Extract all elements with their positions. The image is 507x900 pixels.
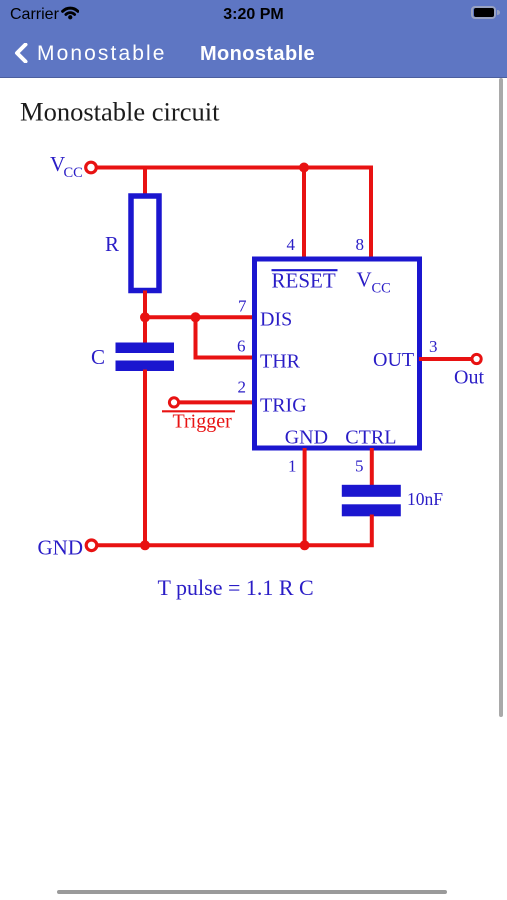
svg-text:Out: Out: [454, 367, 484, 389]
capacitor C2 10nF: [342, 485, 401, 517]
svg-text:GND: GND: [285, 427, 328, 449]
pin label THR: [260, 351, 301, 373]
svg-text:R: R: [105, 232, 119, 256]
wire rail to pin 8: [369, 166, 373, 259]
junction dot pin1 on GND rail: [300, 540, 310, 550]
op-amp / timer IC U1 box: [255, 259, 420, 448]
svg-text:V: V: [357, 268, 372, 292]
terminal Out: [472, 354, 481, 363]
wire Vcc rail: [97, 166, 372, 170]
wire pin 5 to capacitor 10nF: [370, 448, 374, 486]
wire Vcc to resistor: [143, 168, 147, 197]
wire rail to pin 4: [302, 168, 306, 259]
pin label CTRL: [345, 427, 396, 449]
node Vcc label: [50, 152, 83, 181]
pin label TRIG: [260, 395, 307, 417]
svg-text:CC: CC: [64, 165, 83, 181]
svg-text:10nF: 10nF: [407, 489, 443, 509]
pin label RESET: [272, 268, 336, 292]
label Trigger: [173, 411, 233, 433]
svg-text:4: 4: [287, 235, 296, 254]
formula T pulse: [158, 575, 314, 600]
wifi icon: [61, 5, 80, 20]
wire pin 1 to GND rail: [303, 448, 307, 545]
capacitor C: [116, 343, 175, 372]
pin number 7: [238, 297, 247, 316]
pin label DIS: [260, 308, 292, 330]
pin number 1: [288, 457, 297, 476]
wire THR branch to pin 6: [196, 317, 255, 357]
capacitor C value label: [91, 345, 105, 369]
pin number 4: [287, 235, 296, 254]
svg-text:T pulse = 1.1 R C: T pulse = 1.1 R C: [158, 575, 314, 600]
resistor R: [131, 196, 159, 291]
terminal Vcc: [86, 162, 97, 173]
svg-text:DIS: DIS: [260, 308, 292, 330]
status / navigation bar: [0, 0, 507, 78]
terminal GND: [86, 540, 97, 551]
svg-text:OUT: OUT: [373, 349, 414, 371]
svg-text:THR: THR: [260, 351, 301, 373]
pin label GND inside IC: [285, 427, 328, 449]
wire resistor to node A: [143, 291, 147, 320]
svg-text:CTRL: CTRL: [345, 427, 396, 449]
right scroll indicator: [499, 78, 503, 717]
svg-text:2: 2: [238, 378, 247, 397]
svg-text:6: 6: [237, 337, 246, 356]
pin label OUT: [373, 349, 414, 371]
svg-text:Trigger: Trigger: [173, 411, 233, 433]
junction pin4 on rail: [299, 163, 309, 173]
pin number 2: [238, 378, 247, 397]
resistor R value label: [105, 232, 119, 256]
terminal Trigger: [169, 398, 178, 407]
pin number 6: [237, 337, 246, 356]
back chevron: [14, 43, 28, 63]
wire node A to capacitor C: [143, 317, 147, 344]
wire trigger to pin 2: [179, 400, 254, 404]
svg-text:Monostable circuit: Monostable circuit: [20, 97, 220, 127]
pin number 3: [429, 337, 438, 356]
junction dot THR branch: [191, 312, 201, 322]
home indicator: [57, 890, 447, 894]
svg-text:CC: CC: [372, 280, 391, 296]
page title: [20, 97, 220, 127]
wire GND rail: [97, 543, 306, 547]
svg-text:7: 7: [238, 297, 247, 316]
svg-text:5: 5: [355, 457, 364, 476]
svg-text:RESET: RESET: [272, 268, 336, 292]
wire capacitor 10nF to GND rail: [305, 515, 372, 546]
trigger overline: [162, 410, 235, 412]
svg-text:C: C: [91, 345, 105, 369]
RESET overline: [272, 269, 338, 271]
svg-text:1: 1: [288, 457, 297, 476]
pin number 8: [356, 235, 365, 254]
svg-text:TRIG: TRIG: [260, 395, 307, 417]
wire pin 3 to output terminal: [419, 357, 472, 361]
battery icon: [471, 6, 497, 19]
wire capacitor C to GND rail: [143, 370, 147, 546]
svg-text:GND: GND: [38, 536, 84, 560]
pin number 5: [355, 457, 364, 476]
node A junction dot: [140, 312, 150, 322]
pin label Vcc inside IC: [357, 268, 391, 297]
svg-text:3: 3: [429, 337, 438, 356]
node Out label: [454, 367, 484, 389]
capacitor C2 value label 10nF: [407, 489, 443, 509]
wire node A to DIS pin 7: [145, 315, 254, 319]
node GND label: [38, 536, 84, 560]
svg-text:8: 8: [356, 235, 365, 254]
junction dot C on GND rail: [140, 540, 150, 550]
